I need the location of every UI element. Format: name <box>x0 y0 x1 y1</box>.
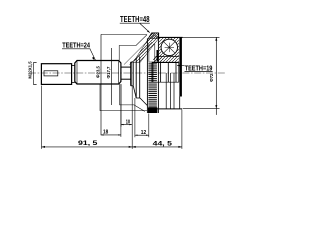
svg-text:TEETH=19: TEETH=19 <box>185 63 213 72</box>
svg-text:M22X1,5: M22X1,5 <box>27 61 32 79</box>
svg-text:Φ72: Φ72 <box>209 73 214 82</box>
svg-text:44, 5: 44, 5 <box>153 141 173 148</box>
svg-text:10: 10 <box>126 120 130 126</box>
svg-text:91, 5: 91, 5 <box>78 140 98 147</box>
svg-text:TEETH=48: TEETH=48 <box>120 15 150 24</box>
svg-text:Φ17,7: Φ17,7 <box>106 66 111 79</box>
svg-text:TEETH=24: TEETH=24 <box>62 40 90 49</box>
svg-text:Φ23,5: Φ23,5 <box>96 65 101 78</box>
svg-text:12: 12 <box>141 130 146 136</box>
svg-text:18: 18 <box>103 130 108 136</box>
